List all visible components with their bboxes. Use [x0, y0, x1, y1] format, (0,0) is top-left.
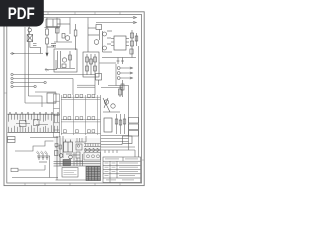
wire: staircase — [15, 141, 54, 151]
wire: box link horizontals — [77, 85, 95, 87]
central block component pairs row 3 — [64, 130, 95, 133]
sheet outer border frame — [4, 12, 144, 186]
connector J1 column of cells — [54, 94, 60, 137]
bridge rectifier D1 — [27, 35, 33, 48]
transistor Q5 — [59, 154, 63, 158]
resistor stack R10-R12 right column — [130, 30, 138, 58]
wire: mid-left harness line 2 — [11, 77, 73, 95]
thermistor marks — [33, 44, 37, 46]
misc strokes bottom-center cluster — [55, 147, 83, 166]
diode D5 cluster circles — [103, 98, 120, 112]
small parts left of U4 — [55, 138, 82, 149]
small box above connector — [47, 93, 56, 103]
small box bottom-left — [8, 137, 16, 143]
capacitor trio cluster — [36, 151, 50, 162]
audio section verticals — [57, 136, 63, 180]
title block text bars — [105, 159, 139, 181]
wire: block right edge — [100, 95, 102, 166]
wire: left vertical drop — [24, 27, 26, 103]
IC U4 twin box — [64, 140, 73, 153]
wire: feeds into title area — [101, 147, 135, 157]
fuse F1 input circle below badge — [28, 27, 32, 35]
small box left of Q5 — [55, 151, 59, 156]
central block component pairs row 1 — [64, 94, 95, 97]
zone tick marks — [4, 12, 144, 186]
small box top of mid column — [96, 63, 117, 85]
capacitor pair under cluster — [117, 58, 125, 65]
IC U1 box top-right — [114, 36, 126, 50]
wire: long bottom horizontal — [12, 177, 58, 179]
capacitor bank band top rail — [8, 113, 61, 115]
wire: second vertical drop — [27, 27, 29, 96]
wire: mid-left harness line 1 — [11, 73, 95, 95]
central block rails — [61, 97, 101, 133]
capacitor bank comb strokes — [9, 114, 58, 132]
capacitor C2 — [46, 44, 56, 57]
sheet inner border frame — [7, 15, 142, 183]
wire: under right-mid cluster — [101, 135, 129, 137]
capacitor bank mid segments — [16, 124, 48, 125]
wire: bottom rails of audio section — [54, 162, 101, 167]
corner box top of audio cluster — [75, 136, 86, 158]
wire: bridge output — [30, 48, 41, 54]
resistor R20 vertical — [121, 80, 124, 97]
wire: mid harness line to block — [35, 91, 56, 93]
capacitor bank band bottom rail — [8, 131, 61, 133]
wire: right-mid horizontal — [101, 87, 123, 89]
boxes above title block — [101, 136, 132, 145]
wire: mid-left harness line 4 — [11, 85, 36, 87]
capacitor bank small boxes — [20, 120, 40, 127]
sheet background — [0, 0, 149, 198]
wire: drops from top rail — [47, 18, 88, 26]
capacitor bank top circles — [9, 112, 59, 114]
wire: bottom of top-right cluster — [102, 57, 136, 59]
small box right of badge — [45, 19, 61, 28]
connector boxes right edge — [129, 118, 139, 137]
resistor R2 vertical dashed — [46, 25, 49, 47]
PDF badge — [0, 0, 44, 27]
dark component blob — [63, 155, 72, 165]
secondary rectifier box mid-right — [83, 52, 99, 77]
transistor Q2 cluster top-right-middle — [88, 24, 102, 52]
diode row D8-D11 — [84, 147, 101, 152]
resistor R15 — [119, 86, 122, 98]
svg-text:PDF: PDF — [8, 4, 35, 23]
wire: under label box — [56, 179, 87, 181]
snubber box mid-left — [54, 49, 77, 72]
central block component pairs row 2 — [64, 117, 95, 120]
wire: far right bus — [137, 46, 139, 157]
wire: feedback vertical — [108, 64, 116, 86]
IC U3 box right-mid — [104, 118, 112, 132]
wire: below band — [30, 137, 58, 139]
IC U1 pin stubs — [111, 39, 129, 46]
wire: L-turn to band — [25, 102, 56, 104]
wire: L-turn upper — [28, 96, 42, 107]
rectifier box with circles — [84, 153, 101, 161]
wire: mid-left harness line 3 — [11, 81, 46, 83]
wire: top horizontal rail with arrow — [44, 16, 137, 19]
wire: vertical riser bottom-left — [49, 156, 51, 178]
central block verticals — [62, 95, 98, 135]
tick comb above diode row — [84, 144, 101, 147]
wire: primary ground rail — [10, 52, 43, 54]
output arrows with terminal circles — [117, 67, 132, 80]
dense area wash band — [8, 114, 60, 133]
transistor Q1 cluster top-middle — [54, 24, 77, 50]
wire: right bus — [116, 86, 129, 151]
wire: second top rail with arrow — [96, 21, 137, 24]
ground symbol left of snubber box — [45, 60, 57, 71]
wire: lower-left horizontal with terminal — [11, 165, 45, 172]
wire: right lower horizontals — [101, 139, 129, 142]
photocoupler PC1 left of U1 — [103, 31, 113, 52]
heatsink hatched block — [86, 167, 101, 181]
label box bottom-center — [62, 168, 78, 178]
dense area wash bottom-center — [54, 138, 101, 166]
title block table — [103, 157, 141, 183]
resistor chain right of U3 — [115, 114, 126, 134]
